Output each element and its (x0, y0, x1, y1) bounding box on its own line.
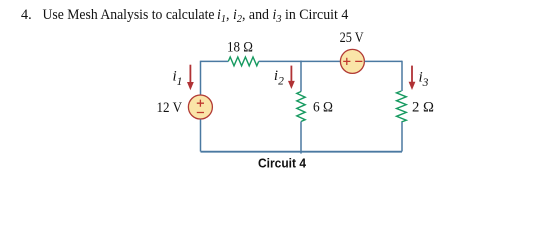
svg-text:Circuit 4: Circuit 4 (258, 156, 307, 171)
svg-text:25 V: 25 V (340, 30, 364, 46)
voltage source 12 V (left branch) (188, 95, 212, 119)
wire: top-middle segment (18 ohm to middle junction) (259, 60, 301, 62)
node: bottom middle junction (300, 151, 302, 153)
wire: left branch upper (top-left corner down to 12 V source) (200, 61, 202, 95)
svg-text:12 V: 12 V (157, 100, 183, 116)
wire: right branch lower (2 ohm down to bottom-right corner) (401, 122, 403, 152)
svg-text:i3: i3 (419, 70, 429, 90)
svg-text:2 Ω: 2 Ω (412, 100, 434, 116)
voltage source 25 V (top right branch) (340, 49, 364, 73)
svg-text:i2: i2 (274, 68, 284, 88)
wire: top segment (middle junction to 25 V source) (301, 60, 340, 62)
svg-text:i1: i1 (173, 69, 183, 89)
resistor 2 ohm (right branch) (397, 91, 407, 122)
resistor 6 ohm (middle branch) (297, 92, 305, 122)
wire: top-left segment (left corner to 18 ohm resistor) (201, 60, 229, 62)
wire: middle branch upper (top junction down to 6 ohm resistor) (300, 61, 302, 92)
svg-text:i1, i2, and i3 in Circuit 4: i1, i2, and i3 in Circuit 4 (217, 7, 348, 25)
wire: bottom segment (bottom-left corner to bottom-right corner) (201, 151, 403, 153)
svg-text:6 Ω: 6 Ω (313, 100, 333, 116)
wire: left branch lower (12 V source down to bottom-left corner) (200, 119, 202, 151)
current arrow i3 (down, right branch) (409, 66, 416, 90)
wire: middle branch lower (6 ohm down to bottom junction) (300, 122, 302, 154)
svg-text:Use Mesh Analysis to calculate: Use Mesh Analysis to calculate (43, 7, 215, 23)
wire: top-right segment (25 V source to right corner) (365, 60, 402, 62)
node: top middle junction (300, 61, 302, 63)
svg-text:18 Ω: 18 Ω (227, 40, 253, 56)
problem title text (21, 7, 348, 25)
current arrow i2 (down, middle branch) (288, 66, 295, 89)
wire: right branch upper (top-right corner down to 2 ohm resistor) (401, 61, 403, 91)
current arrow i1 (down, left branch) (187, 65, 194, 91)
resistor 18 ohm (top branch) (228, 57, 258, 66)
svg-text:4.: 4. (21, 7, 32, 23)
